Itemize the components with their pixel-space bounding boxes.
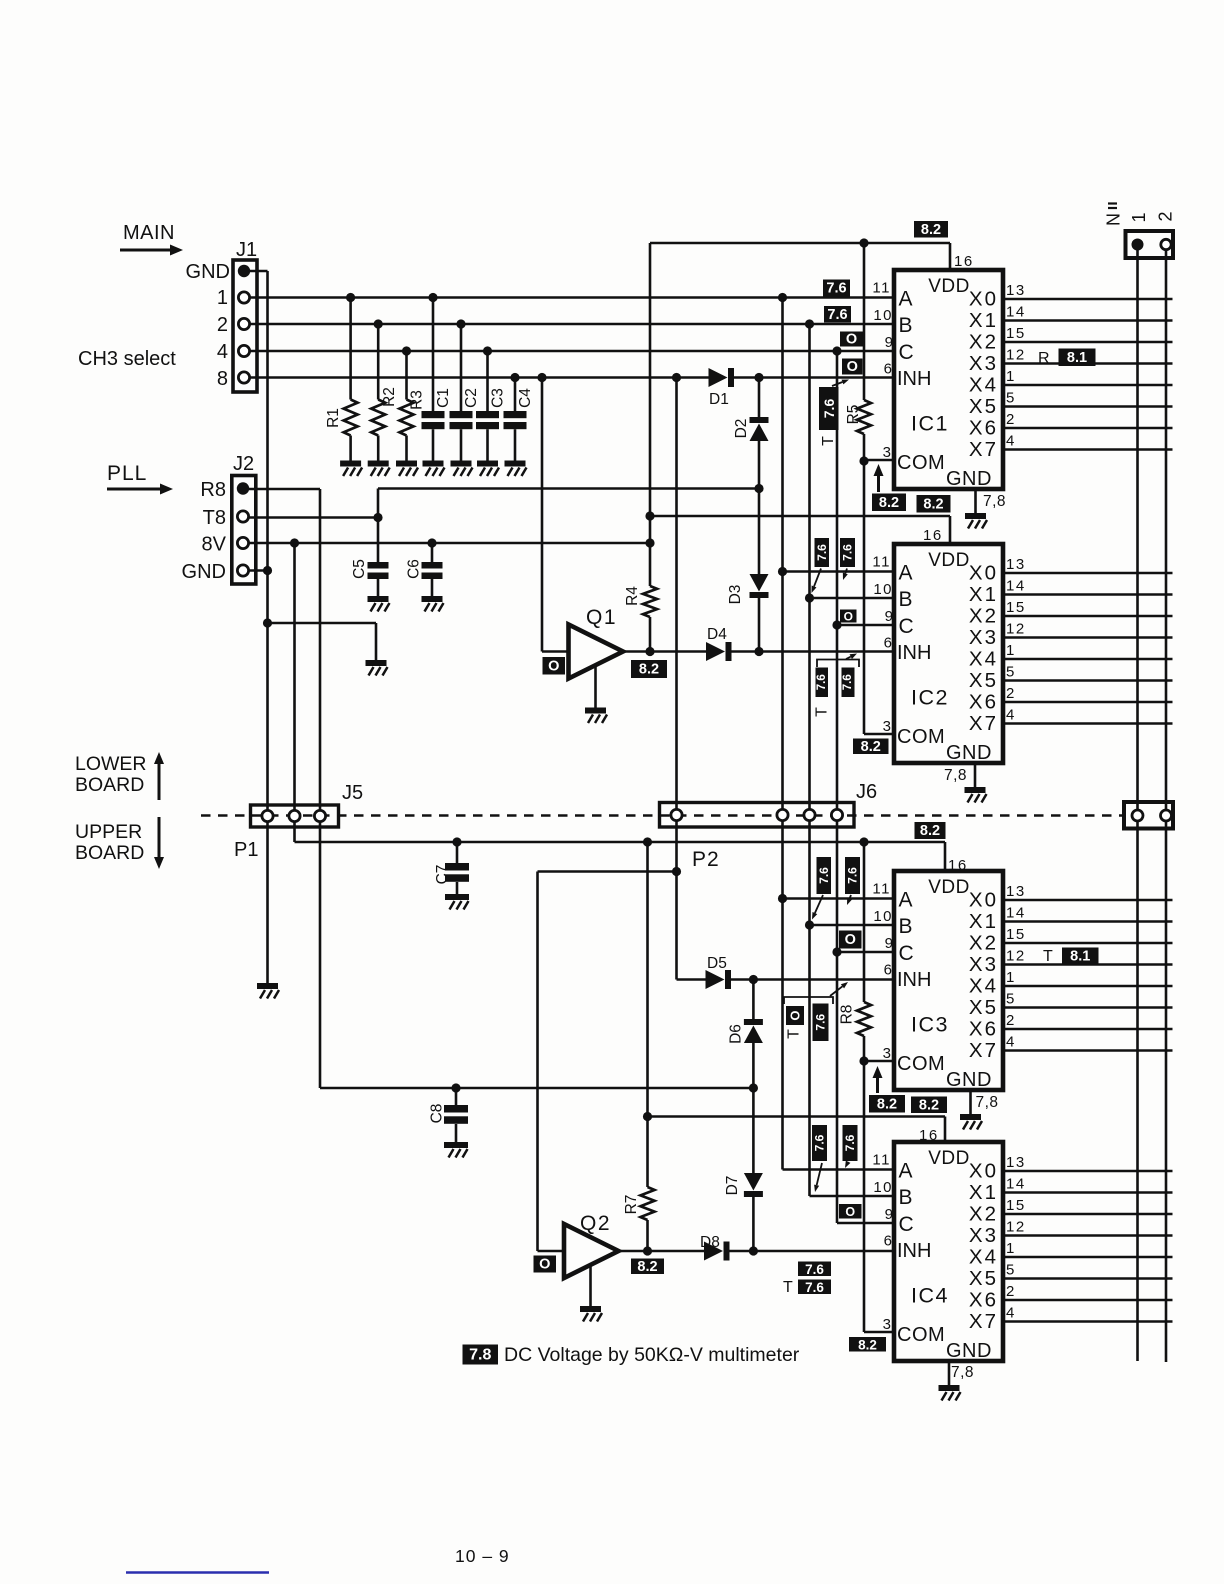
svg-text:2: 2 xyxy=(1156,211,1176,221)
svg-text:X1: X1 xyxy=(969,910,998,933)
svg-text:10 – 9: 10 – 9 xyxy=(455,1546,510,1566)
voltage label 0 at Q1 input xyxy=(543,657,566,675)
junction T8 at D2/D3 midpoint xyxy=(754,484,763,493)
junction R8 bottom at IC3 COM xyxy=(859,1056,868,1065)
svg-text:C8: C8 xyxy=(429,1104,446,1124)
wire branch row to Q2 input column xyxy=(538,870,677,873)
svg-text:J5: J5 xyxy=(342,782,363,804)
ground symbol under C6 xyxy=(422,596,444,612)
op-amp IC3 (analog multiplexer) xyxy=(894,871,1003,1090)
svg-text:X2: X2 xyxy=(969,331,998,354)
svg-text:C5: C5 xyxy=(351,559,368,579)
svg-text:INH: INH xyxy=(897,1240,931,1262)
svg-text:4: 4 xyxy=(1006,1305,1016,1322)
wire IC3 A row xyxy=(783,897,895,900)
connector J6 xyxy=(660,803,855,828)
svg-text:15: 15 xyxy=(1006,599,1026,616)
svg-text:Q2: Q2 xyxy=(580,1212,611,1235)
wire COM column from IC1 COM down to IC2 COM xyxy=(863,461,866,734)
capacitor C5 xyxy=(377,518,380,563)
wire Q2 output to diode D8 xyxy=(619,1250,705,1253)
svg-text:8.2: 8.2 xyxy=(879,495,899,511)
capacitor C6 xyxy=(431,543,434,562)
resistor R7 pull-up xyxy=(646,1117,649,1188)
junction dots on row 1 xyxy=(346,293,355,302)
svg-text:8V: 8V xyxy=(202,534,227,556)
wire IC3 C row xyxy=(837,951,894,954)
svg-text:R1: R1 xyxy=(325,408,342,428)
svg-text:X7: X7 xyxy=(969,712,998,735)
svg-text:10: 10 xyxy=(873,908,893,925)
svg-text:2: 2 xyxy=(1006,1283,1016,1300)
wire R8 row to diode chain D6/D7 xyxy=(320,1087,753,1090)
svg-text:GND: GND xyxy=(186,261,230,283)
junction R7 bottom at Q2 output xyxy=(643,1246,652,1255)
svg-text:R7: R7 xyxy=(623,1195,640,1215)
svg-text:O: O xyxy=(548,658,559,674)
voltage labels T 7.6 7.6 under IC2 INH with bracket xyxy=(817,660,859,668)
svg-text:J1: J1 xyxy=(236,239,257,261)
svg-text:D8: D8 xyxy=(700,1234,720,1251)
svg-text:7.6: 7.6 xyxy=(827,307,847,323)
wire bus line 1 from top connector pin 1 xyxy=(1136,245,1139,1362)
svg-text:7.6: 7.6 xyxy=(841,544,855,561)
svg-text:O: O xyxy=(788,1010,803,1020)
resistor R4 pull-up xyxy=(643,586,657,617)
svg-text:16: 16 xyxy=(923,527,943,544)
svg-text:X6: X6 xyxy=(969,417,998,440)
svg-text:10: 10 xyxy=(873,1179,893,1196)
ground symbol under R3 xyxy=(396,461,418,477)
voltage label 7.6 at IC1 pin B xyxy=(824,306,851,323)
svg-text:C7: C7 xyxy=(434,865,451,885)
wire D2 to T8 junction xyxy=(758,441,761,489)
svg-text:7.6: 7.6 xyxy=(842,674,854,690)
svg-text:7.8: 7.8 xyxy=(469,1347,491,1364)
svg-text:X3: X3 xyxy=(969,953,998,976)
junction row 8 at D2 branch xyxy=(754,373,763,382)
voltage label 0 at IC4 pin C xyxy=(839,1204,862,1219)
svg-text:X5: X5 xyxy=(969,1267,998,1290)
svg-text:O: O xyxy=(539,1257,550,1273)
svg-text:T: T xyxy=(820,436,837,446)
wire VDD rail column down to R4 xyxy=(649,243,652,586)
resistor R3 xyxy=(405,351,408,400)
svg-text:4: 4 xyxy=(1006,1034,1016,1051)
wire D3 to Q1 output row xyxy=(758,598,761,652)
svg-text:R3: R3 xyxy=(409,390,426,410)
connector J5 xyxy=(251,805,339,827)
voltage label 8.2 at lower rail xyxy=(915,822,946,839)
svg-text:12: 12 xyxy=(1006,621,1026,638)
diode D4 xyxy=(706,642,732,661)
svg-text:D5: D5 xyxy=(707,955,727,972)
connector J1 xyxy=(233,260,257,392)
wire IC3 GND pin to ground xyxy=(969,1090,972,1114)
svg-text:8.2: 8.2 xyxy=(919,1097,939,1113)
svg-text:7,8: 7,8 xyxy=(976,1094,999,1111)
ground symbol under IC3 xyxy=(960,1114,982,1130)
svg-text:8.2: 8.2 xyxy=(920,823,940,839)
wire J2 GND stub xyxy=(249,569,268,572)
wire column A from row1 down through J6 pin 2 to IC4 pin A xyxy=(781,298,784,810)
svg-text:7,8: 7,8 xyxy=(944,767,967,784)
svg-text:5: 5 xyxy=(1006,664,1016,681)
capacitor C1 xyxy=(432,298,435,412)
svg-text:7,8: 7,8 xyxy=(951,1364,974,1381)
svg-text:T: T xyxy=(814,707,831,717)
wire column from row8 junction down to J6 pin 1 xyxy=(675,378,678,810)
IC2 X output wires to bus xyxy=(1003,572,1173,575)
svg-text:11: 11 xyxy=(872,280,891,297)
wire 8V column below J5 pin 2 xyxy=(293,822,296,843)
ground symbol under C1 xyxy=(423,461,445,477)
capacitor C3 xyxy=(486,351,489,411)
resistor R1 xyxy=(349,298,352,400)
svg-text:14: 14 xyxy=(1006,304,1026,321)
svg-text:3: 3 xyxy=(883,1316,891,1333)
wire COM column from IC3 COM down to IC4 COM xyxy=(863,1061,866,1332)
wire 8.2V top rail to IC1 VDD pin 16 xyxy=(650,242,950,245)
op-amp IC2 (analog multiplexer) xyxy=(894,544,1003,763)
svg-text:X2: X2 xyxy=(969,932,998,955)
wire 8V drop column to IC4 VDD row xyxy=(646,842,649,1117)
svg-text:14: 14 xyxy=(1006,905,1026,922)
wire GND column down left side to J5 pin 1 xyxy=(266,271,269,811)
svg-text:C: C xyxy=(899,341,914,364)
svg-text:7.6: 7.6 xyxy=(813,1134,827,1151)
svg-text:7.6: 7.6 xyxy=(805,1280,824,1295)
svg-text:14: 14 xyxy=(1006,578,1026,595)
svg-text:7.6: 7.6 xyxy=(805,1262,824,1277)
diode D5 xyxy=(706,970,732,989)
ground symbol under C5 xyxy=(368,596,390,612)
svg-text:T: T xyxy=(783,1279,793,1296)
svg-text:2: 2 xyxy=(1006,411,1016,428)
svg-text:5: 5 xyxy=(1006,390,1016,407)
junction top rail at R5 xyxy=(859,238,868,247)
svg-text:BOARD: BOARD xyxy=(75,774,144,796)
svg-text:C: C xyxy=(899,615,914,638)
wire IC3 INH junction down to diode D6 xyxy=(752,980,755,1020)
ground symbol under R1 xyxy=(340,461,362,477)
svg-text:R8: R8 xyxy=(839,1005,856,1025)
voltage labels 8.2 8.2 under IC3 COM with arrow xyxy=(876,1076,879,1093)
wire ground tap to ground symbol xyxy=(268,622,377,625)
svg-text:8.2: 8.2 xyxy=(877,1096,897,1112)
svg-text:IC2: IC2 xyxy=(911,686,949,710)
svg-text:1: 1 xyxy=(1129,212,1149,222)
ground symbol under C2 xyxy=(451,461,473,477)
svg-text:X7: X7 xyxy=(969,438,998,461)
svg-text:11: 11 xyxy=(872,554,891,571)
wire IC2 B row xyxy=(810,597,895,600)
connector bus mid (at board separation) xyxy=(1124,802,1173,829)
svg-text:5: 5 xyxy=(1006,991,1016,1008)
junction VDD rail at IC2 VDD row xyxy=(645,511,654,520)
op-amp IC4 (analog multiplexer) xyxy=(894,1142,1003,1361)
svg-text:6: 6 xyxy=(884,635,892,652)
diode D6 xyxy=(744,1019,763,1043)
svg-text:B: B xyxy=(899,588,913,611)
svg-text:12: 12 xyxy=(1006,948,1026,965)
svg-text:O: O xyxy=(845,1205,855,1219)
svg-text:A: A xyxy=(899,288,913,311)
ground symbol under C8 xyxy=(444,1142,468,1158)
junction R4 bottom at Q1 output xyxy=(645,647,654,656)
voltage label 8.2 at top rail xyxy=(914,221,948,238)
svg-text:C2: C2 xyxy=(463,388,480,408)
wire IC2 GND pin to ground xyxy=(974,763,977,787)
svg-text:3: 3 xyxy=(883,444,891,461)
svg-text:13: 13 xyxy=(1006,556,1026,573)
wire IC2 A row xyxy=(783,570,895,573)
svg-text:X4: X4 xyxy=(969,975,998,998)
legend 7.8 DC Voltage note xyxy=(463,1345,499,1365)
transistor Q2 (buffer) xyxy=(564,1224,619,1278)
voltage label 7.6 at IC1 pin A xyxy=(823,280,850,297)
svg-text:N: N xyxy=(1104,213,1124,226)
junction at IC4 VDD row xyxy=(643,1112,652,1121)
svg-text:VDD: VDD xyxy=(928,1148,970,1169)
wire R8 row down to diode D7 xyxy=(752,1088,755,1173)
svg-text:3: 3 xyxy=(883,718,891,735)
wire into Q1 input xyxy=(542,650,569,653)
junction C8 on R8 row xyxy=(451,1083,460,1092)
svg-text:X3: X3 xyxy=(969,626,998,649)
svg-text:15: 15 xyxy=(1006,1197,1026,1214)
voltage labels 7.6 7.6 at IC4 A B with leaders xyxy=(812,1125,827,1161)
svg-text:8.2: 8.2 xyxy=(858,1337,877,1352)
svg-text:GND: GND xyxy=(946,1340,992,1362)
svg-text:MAIN: MAIN xyxy=(123,222,175,244)
ground symbol under C3 xyxy=(477,461,499,477)
wire row 1 from J1 pin 1 to IC1 pin A xyxy=(250,296,894,299)
wire Q1 output to diode D4 xyxy=(623,650,706,653)
svg-text:7.6: 7.6 xyxy=(846,867,860,884)
svg-text:8.1: 8.1 xyxy=(1067,350,1087,366)
svg-text:VDD: VDD xyxy=(928,550,970,571)
junction R5 bottom at IC1 COM xyxy=(859,456,868,465)
svg-text:9: 9 xyxy=(885,334,893,351)
wire T8 riser and long run to diode chain xyxy=(377,489,380,518)
svg-text:PLL: PLL xyxy=(107,462,147,485)
voltage label 8.2 at IC4 COM xyxy=(849,1337,886,1352)
svg-text:X3: X3 xyxy=(969,1224,998,1247)
svg-text:D1: D1 xyxy=(709,391,729,408)
svg-text:T8: T8 xyxy=(203,507,226,529)
svg-text:13: 13 xyxy=(1006,1154,1026,1171)
svg-text:13: 13 xyxy=(1006,883,1026,900)
svg-text:X4: X4 xyxy=(969,648,998,671)
diode D1 xyxy=(709,368,735,387)
svg-text:C: C xyxy=(899,1213,914,1236)
svg-text:7.6: 7.6 xyxy=(821,399,837,419)
svg-text:C: C xyxy=(899,942,914,965)
svg-text:9: 9 xyxy=(885,608,893,625)
wire row 8 from J1 pin 8 to diode D1 xyxy=(250,376,709,379)
IC3 X output wires to bus xyxy=(1003,899,1173,902)
svg-text:2: 2 xyxy=(1006,1012,1016,1029)
wire Q1 input column from row 8 xyxy=(541,378,544,652)
svg-text:16: 16 xyxy=(919,1127,939,1144)
svg-text:X5: X5 xyxy=(969,996,998,1019)
connector N top right xyxy=(1126,231,1174,258)
svg-text:X0: X0 xyxy=(969,288,998,311)
capacitor C7 xyxy=(456,842,459,863)
svg-text:1: 1 xyxy=(1006,368,1016,385)
svg-text:D7: D7 xyxy=(724,1176,741,1196)
svg-text:J2: J2 xyxy=(233,453,254,475)
voltage label 0 at Q2 input xyxy=(534,1256,557,1273)
svg-text:10: 10 xyxy=(873,581,893,598)
wire IC1 GND pin to ground xyxy=(974,489,977,513)
svg-text:T: T xyxy=(786,1029,803,1039)
svg-text:16: 16 xyxy=(948,857,968,874)
svg-text:13: 13 xyxy=(1006,282,1026,299)
svg-text:A: A xyxy=(899,562,913,585)
voltage label 8.2 at Q2 output xyxy=(631,1259,664,1275)
svg-text:8.2: 8.2 xyxy=(923,496,943,512)
svg-text:J6: J6 xyxy=(856,781,877,803)
wire J1 GND pin to ground column xyxy=(250,270,268,273)
svg-text:R8: R8 xyxy=(200,479,226,501)
junction column C at IC3 C xyxy=(832,947,841,956)
wire row 4 from J1 pin 4 to IC1 pin C xyxy=(250,350,894,353)
ground symbol under IC4 xyxy=(939,1385,961,1401)
voltage labels 7.6 7.6 at IC2 A B with leaders xyxy=(815,538,830,567)
op-amp IC1 (analog multiplexer) xyxy=(894,270,1003,489)
ground symbol under C4 xyxy=(505,461,527,477)
svg-text:C6: C6 xyxy=(406,559,423,579)
junction dots on 8V row xyxy=(290,538,299,547)
wire column B from row2 down through J6 pin 3 to IC4 pin B xyxy=(808,324,811,810)
capacitor C4 xyxy=(514,378,517,412)
svg-text:11: 11 xyxy=(872,881,891,898)
svg-text:9: 9 xyxy=(885,1206,893,1223)
svg-text:X0: X0 xyxy=(969,889,998,912)
ground symbol under Q1 xyxy=(585,708,607,724)
voltage label 8.2 at Q1 output xyxy=(631,660,667,678)
junction column A at IC3 A xyxy=(778,894,787,903)
wire Q2 input column xyxy=(536,872,539,1252)
svg-text:12: 12 xyxy=(1006,347,1026,364)
svg-text:7.6: 7.6 xyxy=(843,1134,857,1151)
svg-text:16: 16 xyxy=(954,253,974,270)
svg-text:B: B xyxy=(899,314,913,337)
resistor R8 pull-up xyxy=(863,842,866,1002)
voltage labels T 0 7.6 under IC3 INH with bracket xyxy=(784,997,833,1004)
svg-text:X6: X6 xyxy=(969,691,998,714)
svg-text:8.2: 8.2 xyxy=(639,662,659,678)
svg-text:4: 4 xyxy=(217,341,228,363)
svg-text:R4: R4 xyxy=(624,586,641,606)
ground symbol below P1 xyxy=(257,983,279,999)
svg-text:4: 4 xyxy=(1006,707,1016,724)
wire IC2 VDD row to IC2 pin 16 xyxy=(650,515,950,518)
svg-text:P1: P1 xyxy=(234,839,258,861)
svg-text:A: A xyxy=(899,889,913,912)
svg-text:9: 9 xyxy=(885,935,893,952)
ground symbol near J2 xyxy=(366,660,388,676)
wire R8 column down to J5 pin 3 xyxy=(319,489,322,811)
diode D7 xyxy=(744,1173,763,1197)
svg-text:12: 12 xyxy=(1006,1219,1026,1236)
svg-text:4: 4 xyxy=(1006,433,1016,450)
svg-text:IC1: IC1 xyxy=(911,412,949,436)
wire T8 junction to diode D3 xyxy=(758,489,761,575)
svg-text:O: O xyxy=(846,332,857,348)
wire D4 cathode to IC2 pin INH xyxy=(732,650,895,653)
wire D5 cathode to IC3 pin INH xyxy=(731,978,894,981)
junction GND column at J2 GND xyxy=(263,566,272,575)
resistor R2 xyxy=(377,324,380,400)
svg-text:X2: X2 xyxy=(969,1203,998,1226)
svg-text:7.6: 7.6 xyxy=(826,281,846,297)
voltage label 0 at IC2 pin C xyxy=(840,610,857,624)
ground symbol under IC2 xyxy=(965,787,987,803)
svg-text:A: A xyxy=(899,1160,913,1183)
svg-text:X3: X3 xyxy=(969,352,998,375)
svg-text:1: 1 xyxy=(1006,642,1016,659)
junction column B at IC3 B xyxy=(805,920,814,929)
svg-text:B: B xyxy=(899,1186,913,1209)
wire Q2 emitter to ground xyxy=(589,1265,592,1306)
wire IC2 C row xyxy=(837,624,894,627)
junction dots on row 2 xyxy=(374,319,383,328)
connector J2 xyxy=(232,476,256,585)
diode D3 xyxy=(750,574,769,598)
wire 8V row from J2 to VDD rail xyxy=(249,542,650,545)
junction D7 at IC4 INH row xyxy=(749,1246,758,1255)
svg-text:7.6: 7.6 xyxy=(814,1014,828,1031)
svg-text:X5: X5 xyxy=(969,669,998,692)
ground symbol under C7 xyxy=(445,894,469,910)
svg-text:VDD: VDD xyxy=(928,276,970,297)
wire D6 to R8 row xyxy=(752,1043,755,1088)
resistor R5 pull-up xyxy=(863,243,866,400)
junction dots on lower rail xyxy=(452,837,461,846)
svg-text:8: 8 xyxy=(217,368,228,390)
svg-text:7,8: 7,8 xyxy=(983,493,1006,510)
ground symbol under R2 xyxy=(368,461,390,477)
svg-text:O: O xyxy=(847,359,858,375)
svg-text:2: 2 xyxy=(1006,685,1016,702)
svg-text:COM: COM xyxy=(897,1324,945,1346)
dashed board-separation line LOWER/UPPER xyxy=(201,814,1124,816)
svg-text:X2: X2 xyxy=(969,605,998,628)
wire GND column below J5 pin 1 / P1 xyxy=(266,822,269,984)
svg-text:X0: X0 xyxy=(969,1160,998,1183)
svg-text:UPPER: UPPER xyxy=(75,821,142,843)
svg-text:B: B xyxy=(899,915,913,938)
svg-text:R5: R5 xyxy=(845,405,862,425)
svg-text:GND: GND xyxy=(946,468,992,490)
voltage labels 7.6 T 7.6 at IC4 INH xyxy=(798,1262,831,1277)
svg-text:7.6: 7.6 xyxy=(816,674,828,690)
voltage label 8.2 at IC2 COM xyxy=(853,739,889,755)
voltage label 0 at IC1 pin C xyxy=(840,332,863,348)
wire T8 from J2 to C5 junction xyxy=(249,516,378,519)
wire column C from row4 down through J6 pin 4 to IC4 pin C xyxy=(836,351,839,810)
svg-text:BOARD: BOARD xyxy=(75,842,144,864)
wire 8.2V lower rail to IC3 VDD pin 16 xyxy=(295,841,946,844)
svg-text:C3: C3 xyxy=(490,388,507,408)
svg-text:X1: X1 xyxy=(969,1181,998,1204)
wire IC3 COM row xyxy=(864,1060,894,1063)
svg-text:GND: GND xyxy=(182,561,226,583)
svg-text:6: 6 xyxy=(884,962,892,979)
